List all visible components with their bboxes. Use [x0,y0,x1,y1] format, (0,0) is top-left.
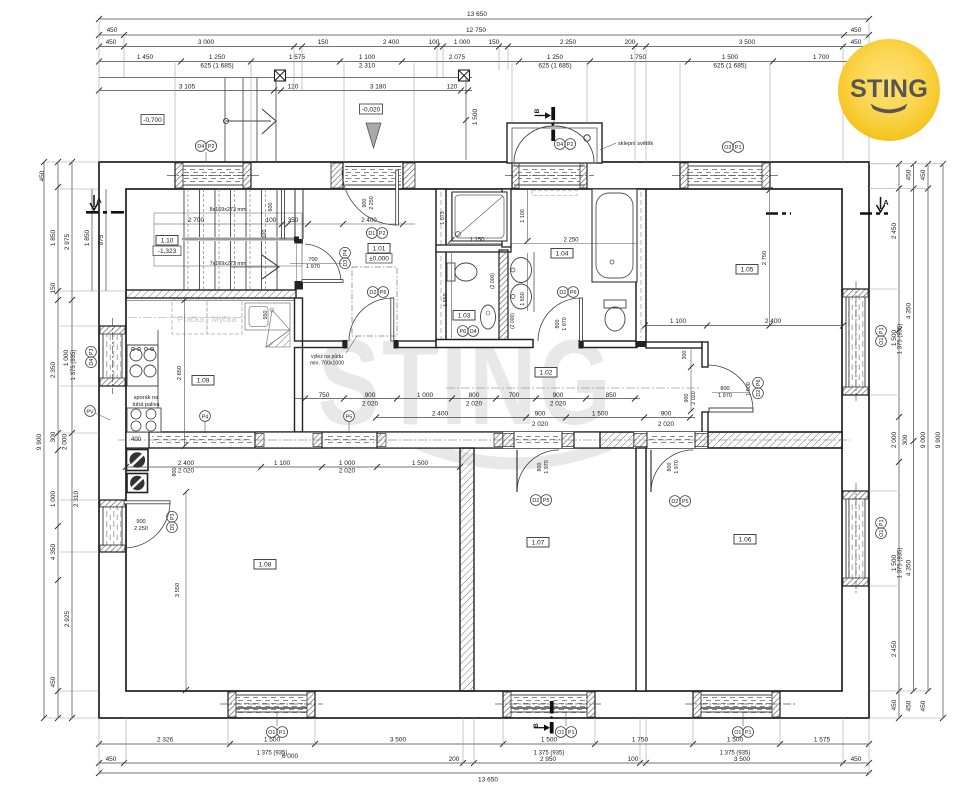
band window above door 1.07 [503,432,574,448]
svg-text:350: 350 [288,217,299,224]
wc sink [481,305,496,329]
band solid block x126-149 [126,432,149,448]
wall 1.08/1.07 hatched x460 [460,448,474,691]
svg-text:2 020: 2 020 [550,401,567,408]
stair opening thin outline [154,213,302,266]
svg-text:300: 300 [902,434,909,445]
door arc D2P6 corridor to room 1.05 [708,365,753,410]
attic hatch dashed [352,267,397,336]
svg-text:9 000: 9 000 [920,431,927,448]
svg-text:P1: P1 [279,730,286,736]
vertical dim 1500 porch [465,78,467,161]
band window P4 [152,435,252,445]
svg-text:600: 600 [268,203,274,212]
section A-A right [766,212,791,215]
svg-text:P4: P4 [343,250,349,257]
svg-text:tuhá paliva: tuhá paliva [132,402,160,408]
svg-text:1 850: 1 850 [50,229,57,246]
svg-text:1 700: 1 700 [813,54,830,61]
svg-text:1 500: 1 500 [727,737,744,744]
svg-text:625 (1 685): 625 (1 685) [200,63,233,70]
bottom dim row D (13 650) [99,772,869,774]
entrance direction arrow [223,109,276,134]
svg-text:P2: P2 [379,231,386,237]
room box 1.02 [535,368,557,378]
svg-text:1 550: 1 550 [443,293,449,307]
svg-text:120: 120 [288,84,299,91]
svg-text:1 575: 1 575 [814,737,831,744]
svg-text:P3: P3 [89,349,95,356]
svg-text:900: 900 [553,392,564,399]
svg-text:3 180: 3 180 [370,84,387,91]
room box 1.09 [192,376,214,386]
wc toilet 1.03 [447,263,455,281]
svg-text:(2 000): (2 000) [490,273,496,289]
svg-text:A: A [883,198,889,207]
wall under wc/sinks y339.5 [436,340,533,348]
WINDOWS [99,162,869,718]
circle pair D4P2 porch [554,139,575,150]
porch light-well top [507,110,602,163]
svg-text:-1,323: -1,323 [158,248,177,255]
room box 1.08 [254,560,276,570]
svg-text:800: 800 [720,386,729,392]
svg-text:1 500: 1 500 [722,54,739,61]
svg-text:1.01: 1.01 [373,246,386,253]
svg-text:2 250: 2 250 [563,238,579,244]
svg-text:300: 300 [50,431,57,442]
svg-text:900: 900 [684,394,690,403]
left dim col 1 (9 900) [43,162,45,718]
svg-text:P6: P6 [570,290,577,296]
svg-text:B: B [534,108,541,113]
svg-text:P5: P5 [682,499,689,505]
svg-text:2 350: 2 350 [50,361,57,378]
svg-text:1 100: 1 100 [359,54,376,61]
outer wall ring fill [99,162,869,718]
section B-B top [551,107,555,120]
svg-text:(2 000): (2 000) [510,313,516,329]
svg-text:2 020: 2 020 [532,421,549,428]
svg-text:450: 450 [39,170,46,181]
wall 1.05 south-west L [646,342,708,433]
svg-text:2 326: 2 326 [157,737,174,744]
right dim col 1 [898,164,900,718]
svg-text:P1: P1 [879,328,885,335]
band window P5 [325,435,374,445]
svg-text:D5: D5 [170,524,176,531]
svg-text:3 500: 3 500 [739,39,756,46]
svg-text:O1: O1 [734,730,741,736]
band window above door 1.06 [634,432,708,448]
chimney flues [127,450,149,493]
svg-text:2 000: 2 000 [62,433,69,450]
kitchen dim row [126,466,460,468]
svg-text:1.05: 1.05 [741,267,754,274]
room box 1.05 [736,265,758,275]
svg-text:13 650: 13 650 [467,11,487,18]
svg-text:1 600: 1 600 [746,382,752,396]
svg-text:450: 450 [107,27,118,34]
left label D4P3 [86,346,97,367]
svg-text:450: 450 [920,169,927,180]
svg-text:450: 450 [50,676,57,687]
D4P2 leader [205,152,207,163]
wall hall south y341 right seg [398,341,437,348]
outer wall outline [99,162,869,718]
porch door band D4P2 top wall [505,162,594,189]
svg-text:900: 900 [136,519,145,525]
svg-text:2 400: 2 400 [765,318,782,325]
svg-text:1 000: 1 000 [50,490,57,507]
corridor axis dash-dot [446,387,700,389]
grid marker box 2 [459,70,470,81]
svg-text:9 900: 9 900 [935,431,942,448]
svg-text:P5: P5 [543,498,550,504]
svg-text:D2: D2 [559,290,566,296]
svg-text:7x169x273 mm: 7x169x273 mm [210,261,247,267]
svg-text:3 500: 3 500 [390,737,407,744]
svg-text:800: 800 [172,468,178,477]
svg-text:Pračka - Myčka: Pračka - Myčka [178,314,237,324]
svg-text:STING: STING [850,75,928,103]
svg-text:4 350: 4 350 [906,559,913,576]
svg-text:sklepní světlík: sklepní světlík [618,141,653,147]
band block x377-503 [377,432,503,448]
rotated pair D3P4 stairs door [340,247,351,268]
svg-text:±0,000: ±0,000 [369,256,389,263]
svg-text:3 000: 3 000 [198,39,215,46]
circle P4 [200,411,211,422]
svg-text:2 020: 2 020 [362,401,379,408]
circle pair O3P1 top window [722,142,743,153]
svg-text:100: 100 [266,217,277,224]
svg-text:625 (1 685): 625 (1 685) [538,63,571,70]
svg-text:P5: P5 [346,414,353,420]
wall shower/wc y245 [436,245,511,252]
door opening D1P2 top wall [331,162,415,189]
svg-text:6 000: 6 000 [282,753,299,760]
wall bath/1.05 x636 [636,189,646,346]
svg-text:1 100: 1 100 [670,318,687,325]
wall shower/bath x502 [502,189,511,247]
wall hall/washrooms x436 [436,189,446,345]
bath tub 1.04 [592,189,637,282]
svg-text:min. 700x1000: min. 700x1000 [310,361,344,367]
svg-text:D4: D4 [197,144,204,150]
svg-text:2 020: 2 020 [466,401,483,408]
svg-text:120: 120 [447,84,458,91]
svg-text:1.09: 1.09 [197,378,210,385]
svg-text:900: 900 [535,411,546,418]
svg-text:2 650: 2 650 [177,366,183,381]
svg-text:1 000: 1 000 [454,39,471,46]
top dim row 5 with grid boxes [99,78,472,91]
svg-text:400: 400 [131,437,142,443]
right extension lines [869,164,944,718]
band block x255-322 [255,432,322,448]
stair treads lower flight [184,241,277,291]
svg-text:2 000: 2 000 [891,431,898,448]
svg-text:D4: D4 [470,329,477,335]
svg-text:2 450: 2 450 [891,222,898,239]
svg-text:1 000: 1 000 [63,349,70,366]
circle pair O1P1 bottom w1 [266,727,287,738]
svg-text:3 550: 3 550 [175,583,181,598]
window W1 D4P2 top wall (stairs) [167,162,259,189]
top dim row 3 [99,46,869,48]
circle pair D2P6 bath [557,287,578,298]
rotated pair D2P6 1.05 door [753,377,764,398]
svg-text:D1: D1 [368,231,375,237]
svg-text:2 020: 2 020 [691,391,697,405]
partition band y432 kitchen-to-right [118,432,850,448]
kitchen stove 4 burners [127,345,158,386]
svg-text:450: 450 [906,169,913,180]
wall kitchen/hall x294 to band [295,348,303,433]
STAIRS [154,189,415,291]
svg-text:3 105: 3 105 [179,84,196,91]
svg-text:450: 450 [920,700,927,711]
svg-text:4 350: 4 350 [906,302,913,319]
svg-text:1 970: 1 970 [306,264,320,270]
svg-text:9 900: 9 900 [36,433,43,450]
svg-text:450: 450 [891,699,898,710]
svg-text:1 100: 1 100 [520,209,526,223]
kitchen counter edge [157,330,159,432]
svg-text:1 150: 1 150 [469,238,485,244]
svg-text:450: 450 [906,700,913,711]
right dim col 3 [927,164,929,691]
top extension lines [99,22,869,162]
top dim row 4 [99,61,869,63]
svg-text:1 100: 1 100 [274,460,291,467]
top dim row 2 (450 | 12 750 | 450) [99,34,869,36]
svg-text:1 375 (935): 1 375 (935) [898,324,904,355]
svg-text:625 (1 685): 625 (1 685) [713,63,746,70]
svg-text:výlez na půdu: výlez na půdu [311,353,343,360]
level box -0,020 [360,104,383,114]
svg-text:D2: D2 [671,499,678,505]
svg-text:975: 975 [98,234,105,245]
stair dim row 2700/100/350 [154,223,415,225]
right dim col 2 [913,164,915,691]
svg-text:900: 900 [362,199,368,208]
svg-text:1.10: 1.10 [161,238,174,245]
svg-text:150: 150 [489,39,500,46]
svg-text:1.04: 1.04 [556,251,569,258]
svg-text:P1: P1 [735,145,742,151]
svg-text:850: 850 [606,392,617,399]
top dim row 1 (13 650) [99,18,869,20]
left extension lines [46,162,126,718]
svg-text:1 500: 1 500 [412,460,429,467]
window O1P1 right wall lower [842,483,869,594]
wall hall south y341 left seg [303,341,344,348]
band white block 574-600 [574,432,600,448]
shower cabin [452,192,507,241]
wall 1.07/1.06 x636 [636,448,646,691]
wall bath south y341 [583,341,637,348]
DOORS [124,170,753,548]
band hatched wall x708-842 [708,432,842,448]
svg-text:2 700: 2 700 [188,217,205,224]
room 1.05 dims [645,325,843,327]
small interior dim lines [185,188,770,690]
room box 1.03 [453,311,475,321]
corridor dim row 1 [295,398,640,400]
section B-B bottom [550,701,554,714]
window O1P1 right wall upper [842,281,869,403]
svg-text:900: 900 [365,392,376,399]
svg-text:-0,020: -0,020 [362,107,381,114]
svg-text:O1: O1 [268,730,275,736]
stairwell edge line [281,189,283,239]
right dim col 4 [942,164,944,718]
grid marker box 1 [275,70,286,81]
door D5P3 left wall [99,500,126,552]
stair treads upper flight [184,189,277,237]
bottom dim row A [99,743,869,745]
svg-text:D2: D2 [369,290,376,296]
gray triangle marker [366,123,381,148]
door arc D2P6 hall to corridor [349,298,392,341]
door arc D2P5 to room 1.06 [651,450,693,492]
svg-text:200: 200 [449,756,460,763]
svg-text:450: 450 [106,39,117,46]
svg-text:4 350: 4 350 [50,543,57,560]
svg-text:O1: O1 [557,730,564,736]
svg-text:O3: O3 [724,145,731,151]
svg-text:1 970: 1 970 [562,317,568,331]
window O3P1 top wall [672,162,778,189]
circle pair O1P1 bottom w3 [732,727,753,738]
svg-text:A: A [96,196,102,205]
svg-text:P3: P3 [170,514,176,521]
svg-text:2 310: 2 310 [359,63,376,70]
INTERIOR [118,78,850,691]
svg-text:150: 150 [50,282,57,293]
svg-text:1 970: 1 970 [544,460,550,474]
svg-text:2 950: 2 950 [540,756,557,763]
MARKS [86,104,889,734]
bottom extension lines [99,718,869,775]
svg-text:2 400: 2 400 [361,217,377,224]
svg-text:P1: P1 [568,730,575,736]
window O1P1 bottom wall middle [495,691,603,718]
LOGO [838,39,940,141]
svg-text:1 650: 1 650 [520,292,526,306]
wall stairs/kitchen y290 [126,290,296,298]
svg-text:1 000: 1 000 [339,460,356,467]
svg-text:13 650: 13 650 [478,777,498,784]
circle pair O1P1 bottom w2 [555,727,576,738]
svg-text:8x169x273 mm: 8x169x273 mm [210,207,247,213]
svg-text:-0,700: -0,700 [143,117,162,124]
svg-text:O1: O1 [879,530,885,537]
svg-text:2 750: 2 750 [762,251,768,266]
FIXTURES [127,189,638,493]
corridor dim row 2 [376,417,695,419]
circle pair D2P5 room 1.06 [669,496,690,507]
svg-text:2 400: 2 400 [178,460,195,467]
svg-text:2 400: 2 400 [383,39,400,46]
svg-text:800: 800 [537,463,543,472]
svg-text:3 500: 3 500 [734,756,751,763]
svg-text:1.06: 1.06 [739,537,752,544]
svg-text:2 925: 2 925 [64,610,71,627]
svg-text:1.02: 1.02 [540,370,553,377]
door arc D3P4 stairs to hall [305,244,341,281]
circle pair D4P2 top window [195,141,216,152]
band hatched wall mid [600,432,634,448]
svg-text:P2: P2 [208,144,215,150]
kitchen sink block [245,303,290,330]
svg-text:1 850: 1 850 [84,229,91,246]
svg-text:1 500: 1 500 [541,737,558,744]
watermark STING text [318,314,622,470]
wall wc/bath x499 hatched [499,250,508,343]
left dim col 2 [57,162,59,718]
svg-text:P6: P6 [460,329,467,335]
svg-text:1 250: 1 250 [547,54,564,61]
svg-text:2 450: 2 450 [891,640,898,657]
svg-text:100: 100 [628,756,639,763]
svg-text:P1: P1 [879,520,885,527]
sting logo smile [871,104,908,114]
svg-text:1.03: 1.03 [458,313,471,320]
svg-text:1.07: 1.07 [532,540,545,547]
svg-text:800: 800 [469,392,480,399]
entrance walkway steps [225,78,276,161]
toilet 1.04 [604,300,626,308]
svg-text:B: B [533,723,540,728]
window D4P3 left wall (kitchen) [99,318,126,394]
section A-A left [86,211,124,214]
circle pair D2P5 room 1.07 [530,495,551,506]
svg-text:D2: D2 [532,498,539,504]
svg-text:1 250: 1 250 [209,54,226,61]
room box 1.04 [551,249,573,259]
svg-text:800: 800 [667,463,673,472]
circle pair D1P2 entry [366,228,387,239]
door arc D1P2 entrance into hall [342,170,397,225]
svg-text:P2: P2 [567,142,574,148]
svg-text:450: 450 [106,756,117,763]
svg-text:D4: D4 [556,142,563,148]
svg-text:D3: D3 [343,260,349,267]
svg-text:2 020: 2 020 [178,468,195,475]
svg-text:800: 800 [555,320,561,329]
window O1P1 bottom wall left [220,691,323,718]
svg-text:900: 900 [661,411,672,418]
svg-text:P6: P6 [756,380,762,387]
level box -0,700 [141,115,164,125]
svg-text:450: 450 [851,756,862,763]
svg-text:700: 700 [509,392,520,399]
svg-text:150: 150 [318,39,329,46]
svg-text:450: 450 [851,39,862,46]
svg-text:1 000: 1 000 [417,392,434,399]
svg-text:1 075: 1 075 [440,211,446,225]
svg-text:1 450: 1 450 [137,54,154,61]
svg-text:2 250: 2 250 [369,196,375,210]
svg-text:700: 700 [308,257,317,263]
svg-text:1 375 (935): 1 375 (935) [71,350,77,381]
svg-text:1 575: 1 575 [289,54,306,61]
watermark smile [398,431,622,470]
stair mid landing rail [182,238,295,241]
